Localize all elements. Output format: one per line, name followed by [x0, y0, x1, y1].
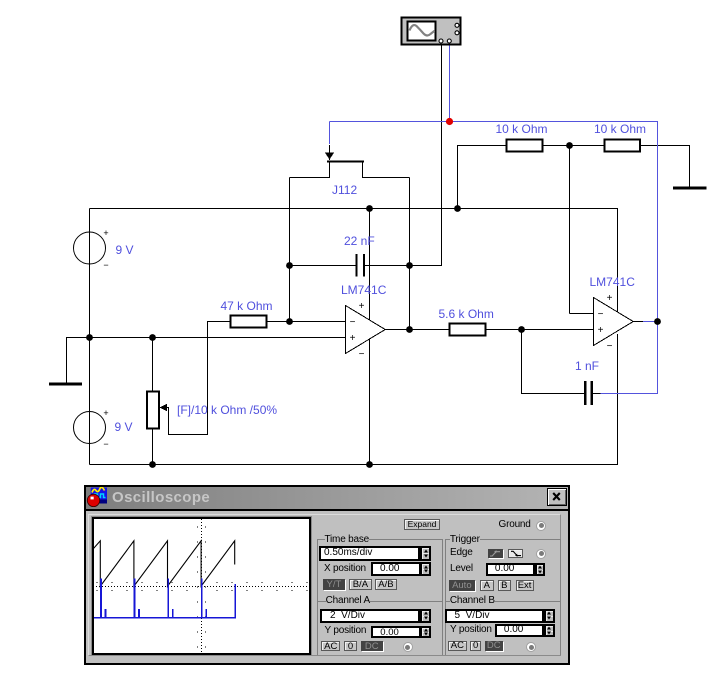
svg-text:9 V: 9 V	[115, 420, 133, 434]
svg-text:+: +	[598, 325, 604, 336]
svg-text:10 k Ohm: 10 k Ohm	[594, 122, 646, 136]
svg-text:+: +	[103, 228, 108, 238]
svg-text:47 k Ohm: 47 k Ohm	[221, 299, 273, 313]
svg-text:LM741C: LM741C	[341, 283, 387, 297]
svg-text:1 nF: 1 nF	[575, 359, 599, 373]
svg-text:9 V: 9 V	[116, 243, 134, 257]
svg-text:LM741C: LM741C	[590, 275, 636, 289]
svg-text:+: +	[350, 333, 356, 344]
svg-text:−: −	[607, 341, 613, 352]
svg-text:22 nF: 22 nF	[344, 234, 375, 248]
svg-text:−: −	[103, 260, 108, 270]
svg-text:+: +	[103, 408, 108, 418]
svg-text:+: +	[359, 301, 365, 312]
svg-text:J112: J112	[332, 183, 357, 197]
svg-text:−: −	[598, 309, 604, 320]
svg-text:−: −	[359, 349, 365, 360]
svg-text:5.6 k Ohm: 5.6 k Ohm	[439, 307, 494, 321]
svg-text:−: −	[350, 317, 356, 328]
svg-text:−: −	[103, 439, 108, 449]
svg-text:10 k Ohm: 10 k Ohm	[496, 122, 548, 136]
svg-text:[F]/10 k Ohm /50%: [F]/10 k Ohm /50%	[177, 403, 277, 417]
svg-text:+: +	[607, 293, 613, 304]
